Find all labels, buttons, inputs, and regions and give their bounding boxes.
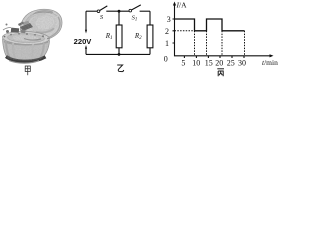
svg-text:2: 2 [165,27,169,36]
svg-text:20: 20 [215,59,223,68]
svg-text:I/A: I/A [176,1,188,10]
svg-text:25: 25 [227,59,235,68]
svg-text:220V: 220V [74,37,93,46]
svg-text:30: 30 [238,59,246,68]
svg-text:15: 15 [205,59,213,68]
svg-text:1: 1 [165,39,169,48]
svg-text:5: 5 [181,59,185,68]
svg-text:0: 0 [164,55,168,64]
svg-text:t/min: t/min [262,58,278,67]
svg-text:10: 10 [192,59,200,68]
svg-text:3: 3 [167,15,171,24]
